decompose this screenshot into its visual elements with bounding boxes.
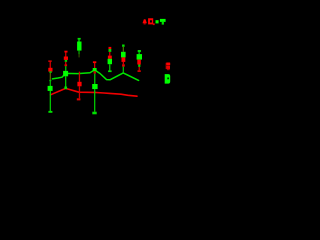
column 2 green nub [65,60,67,62]
column 4 red nub below [94,71,96,74]
column 2 red stem [65,52,66,56]
column 2 red marker [64,57,68,60]
column 4 green marker upper [93,68,97,71]
column 3 fading stem [78,51,80,55]
column 1 green upper cap [49,71,51,73]
legend green T stem [162,22,164,25]
column 3 red stem lower [79,86,80,98]
column 6 red bottom cap [122,64,125,66]
column 7 green nub [138,65,140,67]
column 4 green stem lower [94,89,95,112]
column 4 green marker lower [92,84,97,89]
column 7 red marker [137,60,141,65]
right red glyph (2) upper blob [166,63,170,66]
column 1 green stem lower [50,91,51,111]
column 7 green top cap [138,50,141,52]
column 7 green stem [139,52,140,54]
column 3 tall green marker [77,42,81,51]
column 3 green stem [78,39,79,41]
column 5 red top cap [109,47,112,49]
column 1 green marker [48,86,53,91]
right red glyph tail [167,69,170,70]
column 2 red error bar cap [64,51,67,53]
red series line [51,88,138,96]
column 4 green bottom cap [92,112,96,115]
column 2 red lower stem [65,62,66,65]
column 1 olive stem [50,73,51,80]
column 7 green marker [137,54,142,60]
column 3 red marker [77,82,81,87]
column 3 green top cap [78,38,81,40]
column 5 green marker [108,59,112,64]
column 1 red error bar stem [50,62,51,69]
legend green T bar [160,19,166,22]
column 5 green nub [109,49,112,52]
column 5 green stem [109,64,110,70]
legend green square [156,20,159,23]
right red glyph (2) lower blob [166,66,170,69]
column 4 red top cap [93,61,96,63]
column 1 green stem upper [50,81,51,86]
column 6 green top cap [122,45,125,47]
column 5 red stem [109,52,110,56]
column 6 olive stem [123,47,124,52]
legend red triangle [143,19,147,23]
column 2 green stem [65,66,66,71]
right green glyph (D) body [165,74,171,83]
column 1 red error bar cap [48,60,51,62]
right red glyph dim left edge [165,63,166,69]
column 5 green bottom cap [108,70,112,72]
column 7 red bottom cap [138,70,141,72]
column 7 red stem [139,67,140,70]
green series line [52,70,138,81]
column 3 red stem upper [79,72,80,82]
column 2 green marker [63,71,68,76]
column 2 green bottom cap [64,87,67,90]
column 6 green stem lower [123,67,124,73]
column 4 green stem mid [94,74,95,84]
column 3 red bottom cap [77,98,81,100]
legend red Q tail [153,23,155,25]
column 4 red stem [94,63,95,68]
column 2 green stem lower [65,76,66,86]
legend red triangle foot [144,23,146,24]
legend red Q [148,18,153,24]
column 1 red marker [48,68,52,72]
column 2 red lower cap [65,64,68,66]
column 1 green bottom cap [48,111,52,113]
column 6 red marker [122,57,126,62]
column 1 green nub [49,80,51,81]
column 6 green marker [121,52,126,58]
column 6 red stem [123,62,124,64]
column 5 red marker [108,56,112,59]
